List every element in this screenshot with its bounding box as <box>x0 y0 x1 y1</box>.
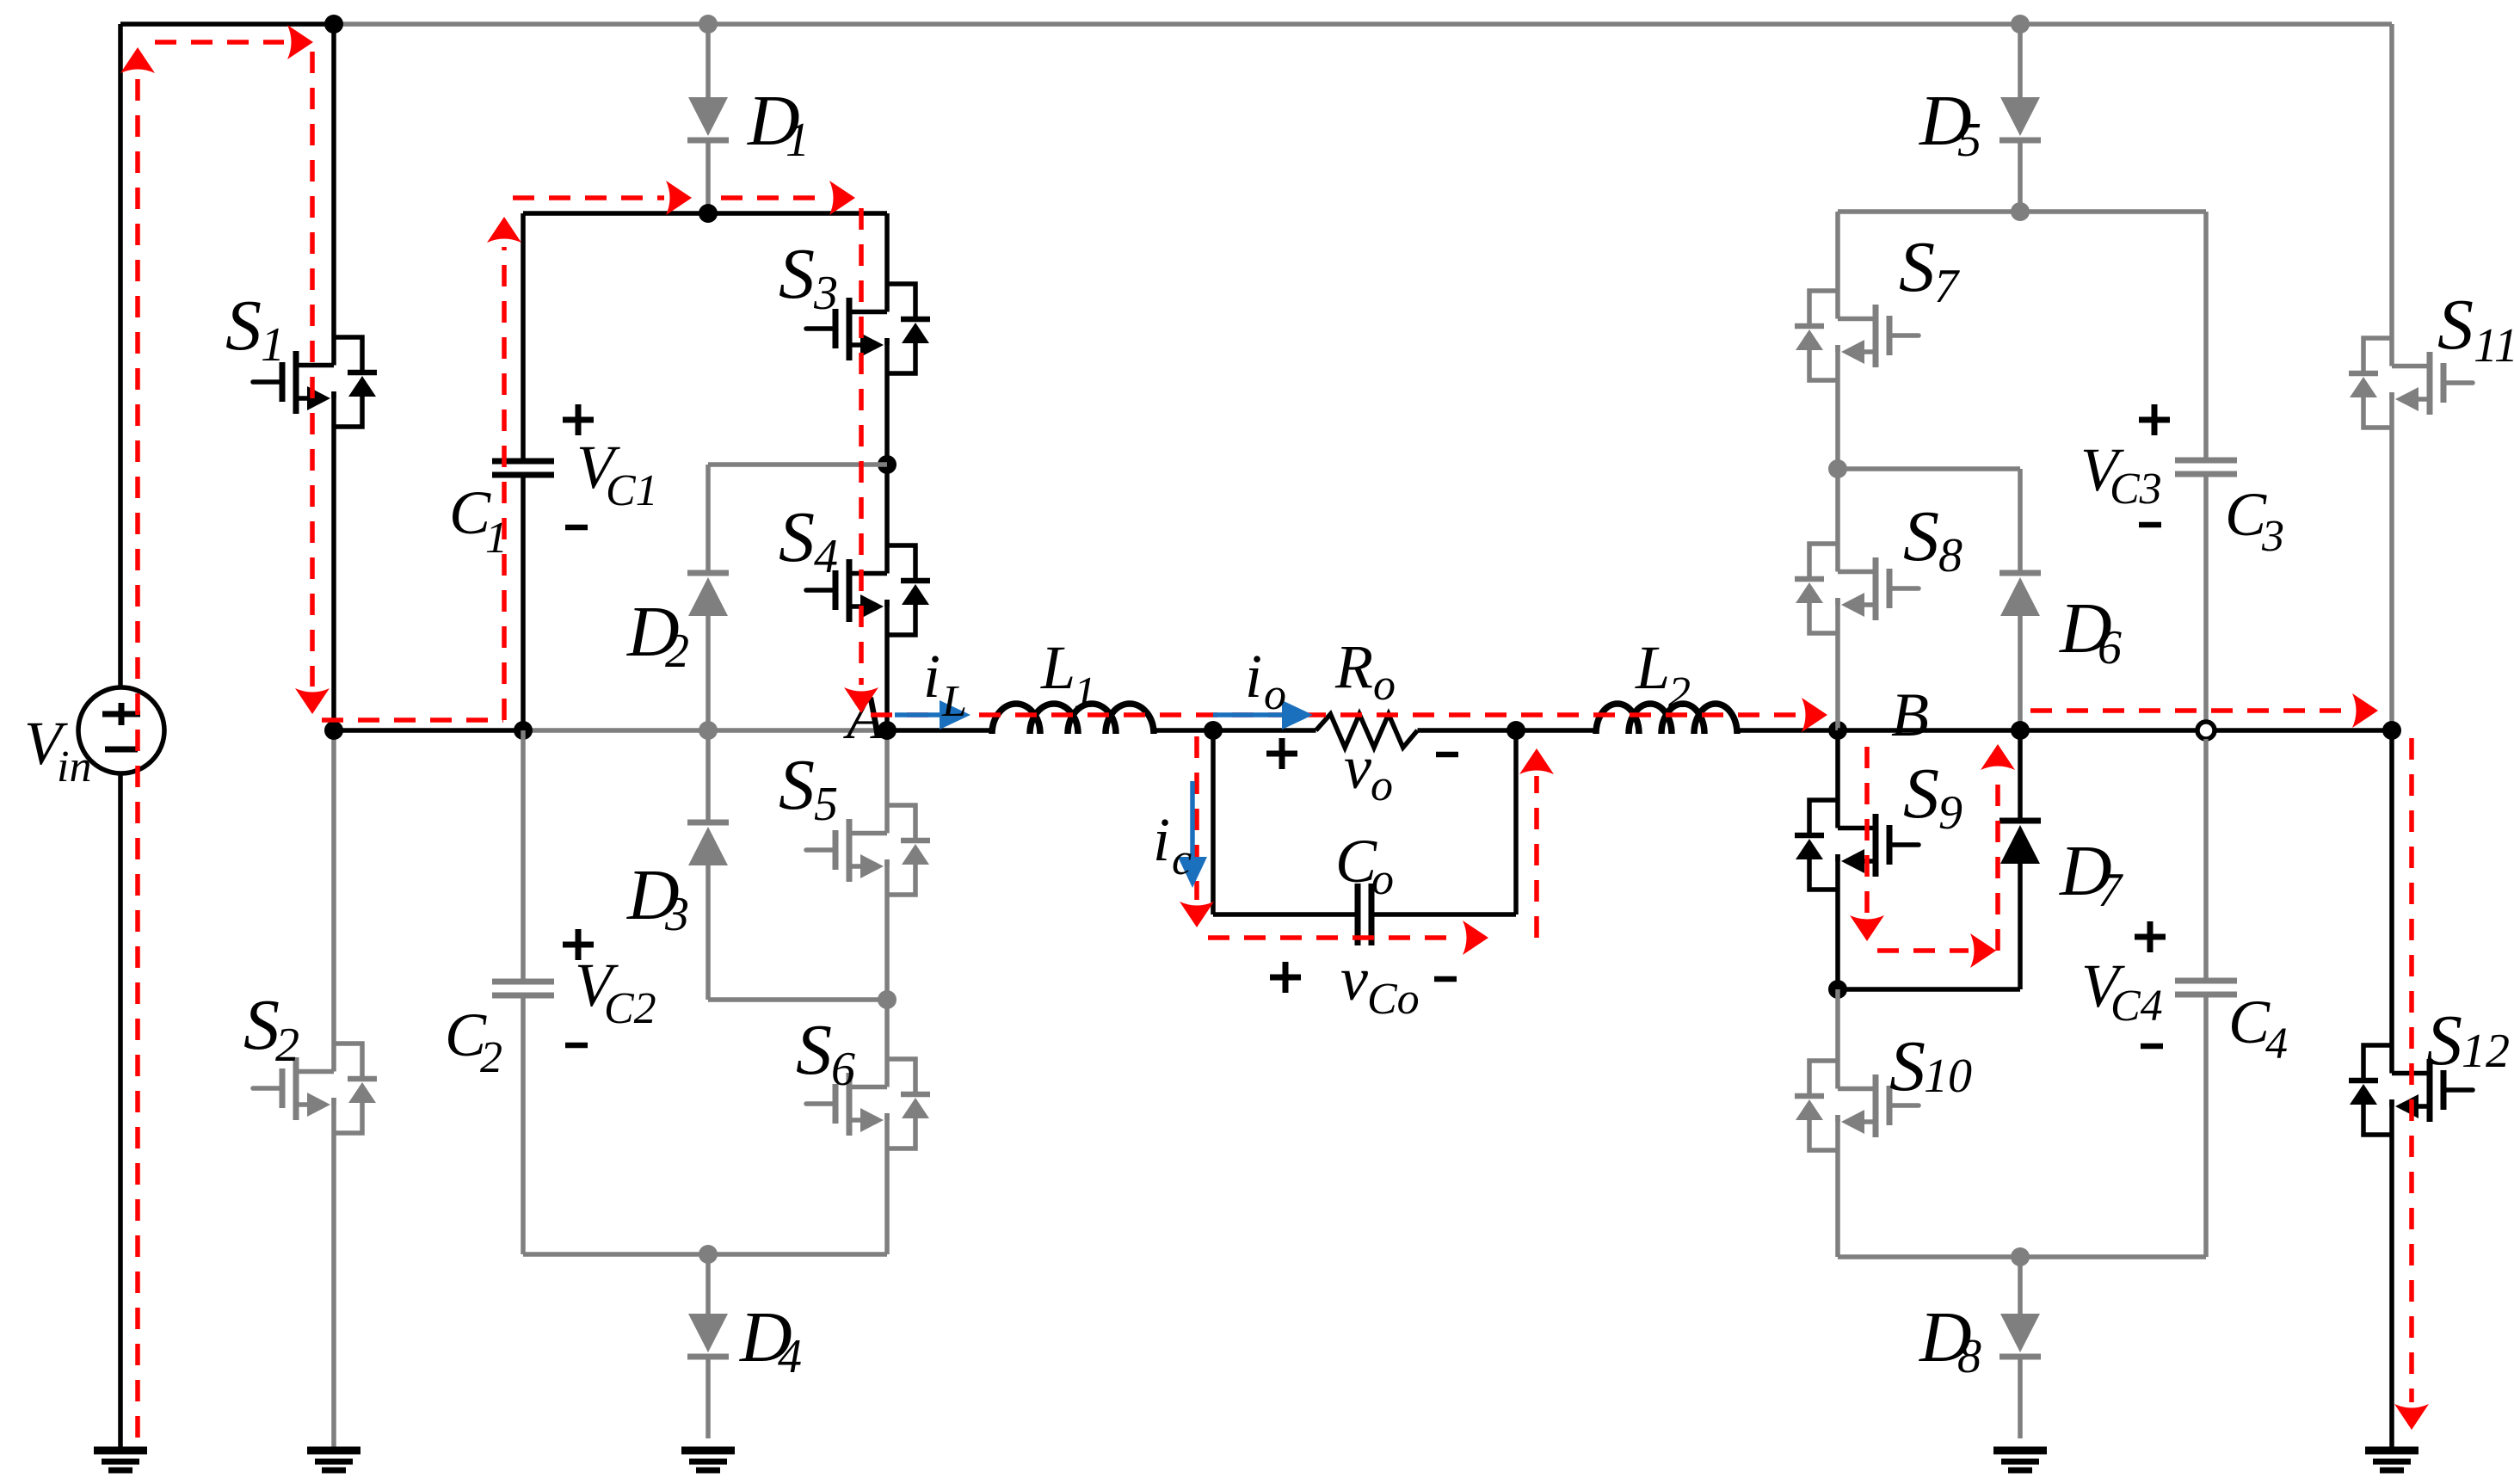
wire: S1 drain from top bus <box>331 24 336 366</box>
capacitor C2 (inactive) <box>492 982 554 995</box>
label node B <box>1891 680 1929 749</box>
wire: S6 source to bottom bus <box>884 1113 890 1254</box>
svg-text:C2: C2 <box>604 984 656 1033</box>
svg-text:i: i <box>1245 642 1262 711</box>
wire: left rail from top bus down to Vin+ <box>118 24 123 689</box>
current path: Co up to Ro right node <box>1519 748 1554 938</box>
current path: C1 top row right toward D1 <box>513 181 692 215</box>
svg-text:S: S <box>2437 285 2474 365</box>
svg-text:11: 11 <box>2474 319 2514 373</box>
wire: left node to Ro <box>1213 728 1316 733</box>
wire: S1 source to mid bus <box>331 391 336 730</box>
node: S3-S4 junction <box>878 455 897 474</box>
svg-text:C1: C1 <box>606 466 658 515</box>
svg-text:4: 4 <box>778 1330 802 1383</box>
svg-text:o: o <box>1371 761 1393 810</box>
svg-text:o: o <box>1264 670 1286 719</box>
mosfet S4 <box>806 545 930 635</box>
wire: S7 source to S8 drain <box>1835 345 1840 572</box>
current path: D1 row to S3 (right) <box>721 181 855 215</box>
resistor Ro <box>1316 714 1418 748</box>
wire: S11 source to mid bus <box>2389 392 2394 730</box>
diode D3 (inactive) <box>687 730 887 1000</box>
wire: mid bus node B to right rail <box>1838 728 2392 733</box>
wire: node A to L1 <box>887 728 995 733</box>
node: S5-S6 / D3 junction <box>878 990 897 1009</box>
wire: S5 source to S6 drain <box>884 859 890 1000</box>
current path: top left horizontal (right) <box>155 25 313 59</box>
wire: S10 drain <box>1835 989 1840 1089</box>
label node A <box>843 683 885 752</box>
wire: right node to L2 <box>1516 728 1599 733</box>
node: mid bus right rail junction <box>2382 721 2401 740</box>
label VC2 with polarity <box>563 929 656 1045</box>
node A <box>878 721 897 740</box>
diode D8 (inactive) <box>1999 1257 2041 1438</box>
label C4 <box>2228 988 2288 1068</box>
wire: C1 bottom column to mid bus <box>521 475 526 730</box>
svg-text:S: S <box>1903 754 1939 834</box>
node: mid bus / S1-S2 junction <box>324 721 343 740</box>
svg-text:S: S <box>796 1010 832 1090</box>
svg-text:C4: C4 <box>2110 982 2163 1031</box>
node: D2 anode on mid bus <box>699 721 718 740</box>
label D2 <box>626 592 689 678</box>
label S10 <box>1889 1026 1972 1106</box>
svg-text:3: 3 <box>813 267 838 320</box>
svg-text:L: L <box>1635 633 1670 702</box>
voltage source Vin <box>78 687 164 773</box>
diode D7 <box>1999 730 2041 989</box>
label S9 <box>1903 754 1963 840</box>
svg-text:4: 4 <box>814 530 838 583</box>
node: D8 anode on bottom bus <box>2011 1247 2030 1266</box>
node: Ro/Co right junction <box>1507 721 1525 740</box>
svg-text:C: C <box>2225 480 2267 549</box>
svg-text:Co: Co <box>1367 975 1420 1024</box>
current path: S9 to D7 (right) <box>1877 933 1996 968</box>
wire: S9-D7 bottom <box>1838 987 2020 992</box>
label D5 <box>1919 81 1981 167</box>
label S5 <box>779 745 838 831</box>
current path: through S9 (down) <box>1850 747 1884 941</box>
svg-text:S: S <box>1903 496 1939 576</box>
current path: mid bus D7 to right rail (right) <box>2030 693 2378 728</box>
label S11 <box>2437 285 2514 373</box>
wire: S9 source to bottom wire <box>1835 854 1840 989</box>
wire: S8 source to node B <box>1835 598 1840 730</box>
svg-text:S: S <box>225 286 262 366</box>
ground (D8) <box>1993 1450 2047 1470</box>
svg-text:S: S <box>1899 227 1935 307</box>
svg-text:S: S <box>2426 1001 2462 1081</box>
svg-text:8: 8 <box>1957 1330 1981 1383</box>
node: S7-S8 junction <box>1828 459 1847 478</box>
label D6 <box>2059 588 2122 674</box>
svg-text:7: 7 <box>2098 864 2123 917</box>
wire: S9 drain from node B <box>1835 730 1840 828</box>
capacitor C3 (inactive) <box>2175 460 2237 474</box>
mosfet S8 (inactive) <box>1795 544 1919 633</box>
current path: left rail vertical (up) <box>120 47 155 1438</box>
label Vin <box>24 709 91 791</box>
node: D7 cathode on mid bus <box>2011 721 2030 740</box>
label C2 <box>445 1001 502 1082</box>
svg-text:2: 2 <box>275 1019 299 1072</box>
svg-text:S: S <box>1889 1026 1926 1106</box>
capacitor C4 (inactive) <box>2175 981 2237 994</box>
wire: row D5 cathode (S7 drain to C3 top) <box>1838 209 2206 214</box>
svg-text:v: v <box>1340 945 1368 1013</box>
label VC4 with polarity <box>2081 921 2166 1046</box>
svg-text:3: 3 <box>664 888 689 941</box>
label S6 <box>796 1010 855 1096</box>
label C1 <box>449 478 508 563</box>
wire: C3 bottom column to mid bus ring <box>2203 474 2209 722</box>
svg-text:12: 12 <box>2462 1025 2510 1078</box>
wire: mid bus gray C1 to node A <box>523 728 887 733</box>
mosfet S7 (inactive) <box>1795 291 1919 380</box>
svg-text:2: 2 <box>1668 668 1691 717</box>
label iL with blue arrow <box>895 642 970 730</box>
label S3 <box>779 234 838 320</box>
svg-text:L: L <box>941 677 967 726</box>
svg-text:4: 4 <box>2265 1019 2288 1068</box>
mosfet S12 <box>2349 1045 2473 1135</box>
ground (Vin) <box>94 1450 147 1470</box>
svg-text:2: 2 <box>480 1033 502 1082</box>
svg-text:B: B <box>1891 680 1929 749</box>
label C3 <box>2225 480 2284 561</box>
svg-text:S: S <box>779 745 815 825</box>
svg-text:o: o <box>1371 855 1394 904</box>
svg-text:6: 6 <box>831 1043 855 1096</box>
wire: C2 bottom column to bottom bus <box>521 995 526 1254</box>
svg-text:3: 3 <box>2261 512 2284 561</box>
label S7 <box>1899 227 1960 313</box>
wire: L1 to Ro-Co node <box>1152 728 1213 733</box>
wire: left rail from Vin- down to ground <box>118 773 123 1447</box>
svg-text:1: 1 <box>261 318 285 372</box>
svg-text:5: 5 <box>1957 114 1981 167</box>
wire: Co loop bottom right <box>1371 912 1516 917</box>
svg-text:1: 1 <box>1074 668 1096 717</box>
wire: C4 top column from ring <box>2203 739 2209 981</box>
node: C3-C4 mid bus ring <box>2197 722 2215 739</box>
current path: mid bus S1 to C1 (right) <box>322 717 503 723</box>
label vo with polarity <box>1266 733 1458 810</box>
node B <box>1828 721 1847 740</box>
wire: top bus gray (S1 node to right rail corner and down is separate) <box>334 22 2392 27</box>
label D7 <box>2059 831 2123 917</box>
wire: Co loop right vertical <box>1513 730 1519 914</box>
ground (D4) <box>681 1450 735 1470</box>
diode D2 (inactive) <box>687 465 887 730</box>
svg-text:i: i <box>923 642 940 711</box>
label Co <box>1335 827 1394 904</box>
diode D5 (inactive) <box>1999 24 2041 212</box>
svg-text:2: 2 <box>665 625 689 678</box>
node: D1 cathode on C1-S3 row <box>699 204 718 223</box>
node: Ro/Co left junction <box>1204 721 1223 740</box>
wire: S12 drain from mid bus <box>2389 730 2394 1074</box>
label VC3 with polarity <box>2080 404 2170 525</box>
svg-text:c: c <box>1172 835 1192 884</box>
svg-text:5: 5 <box>814 778 838 831</box>
wire: L2 to node B <box>1735 728 1838 733</box>
node: D1 anode on top bus <box>699 15 718 34</box>
node: D5 cathode on row <box>2011 202 2030 221</box>
node: D4 anode on bottom bus <box>699 1245 718 1264</box>
label vCo with polarity <box>1270 945 1457 1024</box>
mosfet S11 (inactive) <box>2349 338 2473 428</box>
label S12 <box>2426 1001 2510 1081</box>
current path: up through D7 <box>1981 744 2015 951</box>
node: D5 anode on top bus <box>2011 15 2030 34</box>
svg-text:i: i <box>1153 805 1170 874</box>
wire: S7 drain <box>1835 212 1840 319</box>
label S8 <box>1903 496 1963 582</box>
wire: Ro to right junction <box>1418 728 1517 733</box>
current path: Co bottom (right) <box>1208 921 1488 955</box>
wire: S3 source to S4 drain <box>884 338 890 574</box>
wire: row C1-top to S3 drain <box>523 211 887 216</box>
current path: down through S12 to ground <box>2394 738 2429 1430</box>
mosfet S5 (inactive) <box>806 805 930 895</box>
wire: bottom bus right <box>1838 1254 2206 1259</box>
mosfet S10 (inactive) <box>1795 1061 1919 1150</box>
diode D4 (inactive) <box>687 1254 729 1438</box>
label D8 <box>1919 1297 1981 1383</box>
svg-text:9: 9 <box>1938 786 1963 840</box>
label io with blue arrow <box>1213 642 1313 730</box>
svg-text:R: R <box>1334 632 1373 701</box>
current path: through S3-S4 (down) <box>844 208 878 713</box>
svg-text:v: v <box>1344 733 1371 802</box>
wire: C3 top column <box>2203 212 2209 460</box>
current path: node A to node B (right) <box>871 698 1827 732</box>
label L2 <box>1635 633 1691 717</box>
wire: S2 source to ground <box>331 1098 336 1447</box>
mosfet S1 <box>253 337 377 427</box>
node: mid bus / C1-C2 junction <box>514 721 533 740</box>
label ic with blue arrow <box>1153 781 1207 888</box>
svg-text:7: 7 <box>1934 260 1960 313</box>
svg-text:o: o <box>1373 661 1396 710</box>
mosfet S6 (inactive) <box>806 1059 930 1148</box>
svg-text:1: 1 <box>786 114 810 167</box>
svg-text:S: S <box>779 234 815 314</box>
wire: S11 drain from top bus corner <box>2389 24 2394 366</box>
ground (S12) <box>2365 1450 2418 1470</box>
label S2 <box>243 985 299 1072</box>
svg-text:S: S <box>243 985 280 1065</box>
current path: into Co branch (down) <box>1180 736 1214 927</box>
wire: S10 source to bottom bus <box>1835 1115 1840 1257</box>
label D1 <box>747 81 810 167</box>
diode D1 (inactive) <box>687 24 729 213</box>
wire: top bus (Vin+ to S1 drain node) <box>120 22 334 27</box>
mosfet S2 (inactive) <box>253 1044 377 1133</box>
wire: Co loop bottom left <box>1213 912 1358 917</box>
inductor L1 <box>992 704 1154 734</box>
wire: C1 top column <box>521 213 526 461</box>
inductor L2 <box>1596 704 1737 734</box>
wire: C4 bottom column to bottom bus <box>2203 994 2209 1257</box>
ground (S2) <box>307 1450 360 1470</box>
svg-text:8: 8 <box>1938 529 1963 582</box>
svg-text:10: 10 <box>1924 1050 1972 1103</box>
wire: C2 top column from mid bus <box>521 730 526 982</box>
current path: through S1 (down) <box>295 52 330 714</box>
wire: S6 drain <box>884 1000 890 1087</box>
current path: up through C1 <box>487 217 521 720</box>
wire: S3 drain <box>884 213 890 312</box>
wire: mid bus black S1-C1 <box>334 728 523 733</box>
svg-text:C: C <box>2228 988 2271 1056</box>
label VC1 with polarity <box>563 404 658 527</box>
label Ro <box>1334 632 1396 710</box>
label S4 <box>779 497 838 583</box>
label D4 <box>739 1297 802 1383</box>
capacitor C1 <box>492 461 554 475</box>
label D3 <box>626 855 689 941</box>
mosfet S3 <box>806 284 930 373</box>
svg-text:S: S <box>779 497 815 577</box>
svg-text:6: 6 <box>2098 621 2122 674</box>
mosfet S9 <box>1795 800 1919 890</box>
wire: S5 drain from node A <box>884 730 890 834</box>
wire: Co loop left vertical <box>1211 730 1216 914</box>
node: S9 source junction <box>1828 980 1847 999</box>
svg-text:L: L <box>1040 633 1075 702</box>
wire: S4 source to node A <box>884 600 890 730</box>
wire: S2 drain from mid bus <box>331 730 336 1072</box>
label L1 <box>1040 633 1096 717</box>
capacitor Co <box>1358 884 1371 945</box>
svg-text:in: in <box>57 742 91 791</box>
label S1 <box>225 286 285 372</box>
svg-text:C3: C3 <box>2110 465 2162 514</box>
wire: bottom bus left <box>523 1252 887 1257</box>
node: top bus / S1 drain junction <box>324 15 343 34</box>
wire: S12 source to ground <box>2389 1099 2394 1447</box>
diode D6 (inactive) <box>1838 469 2041 730</box>
